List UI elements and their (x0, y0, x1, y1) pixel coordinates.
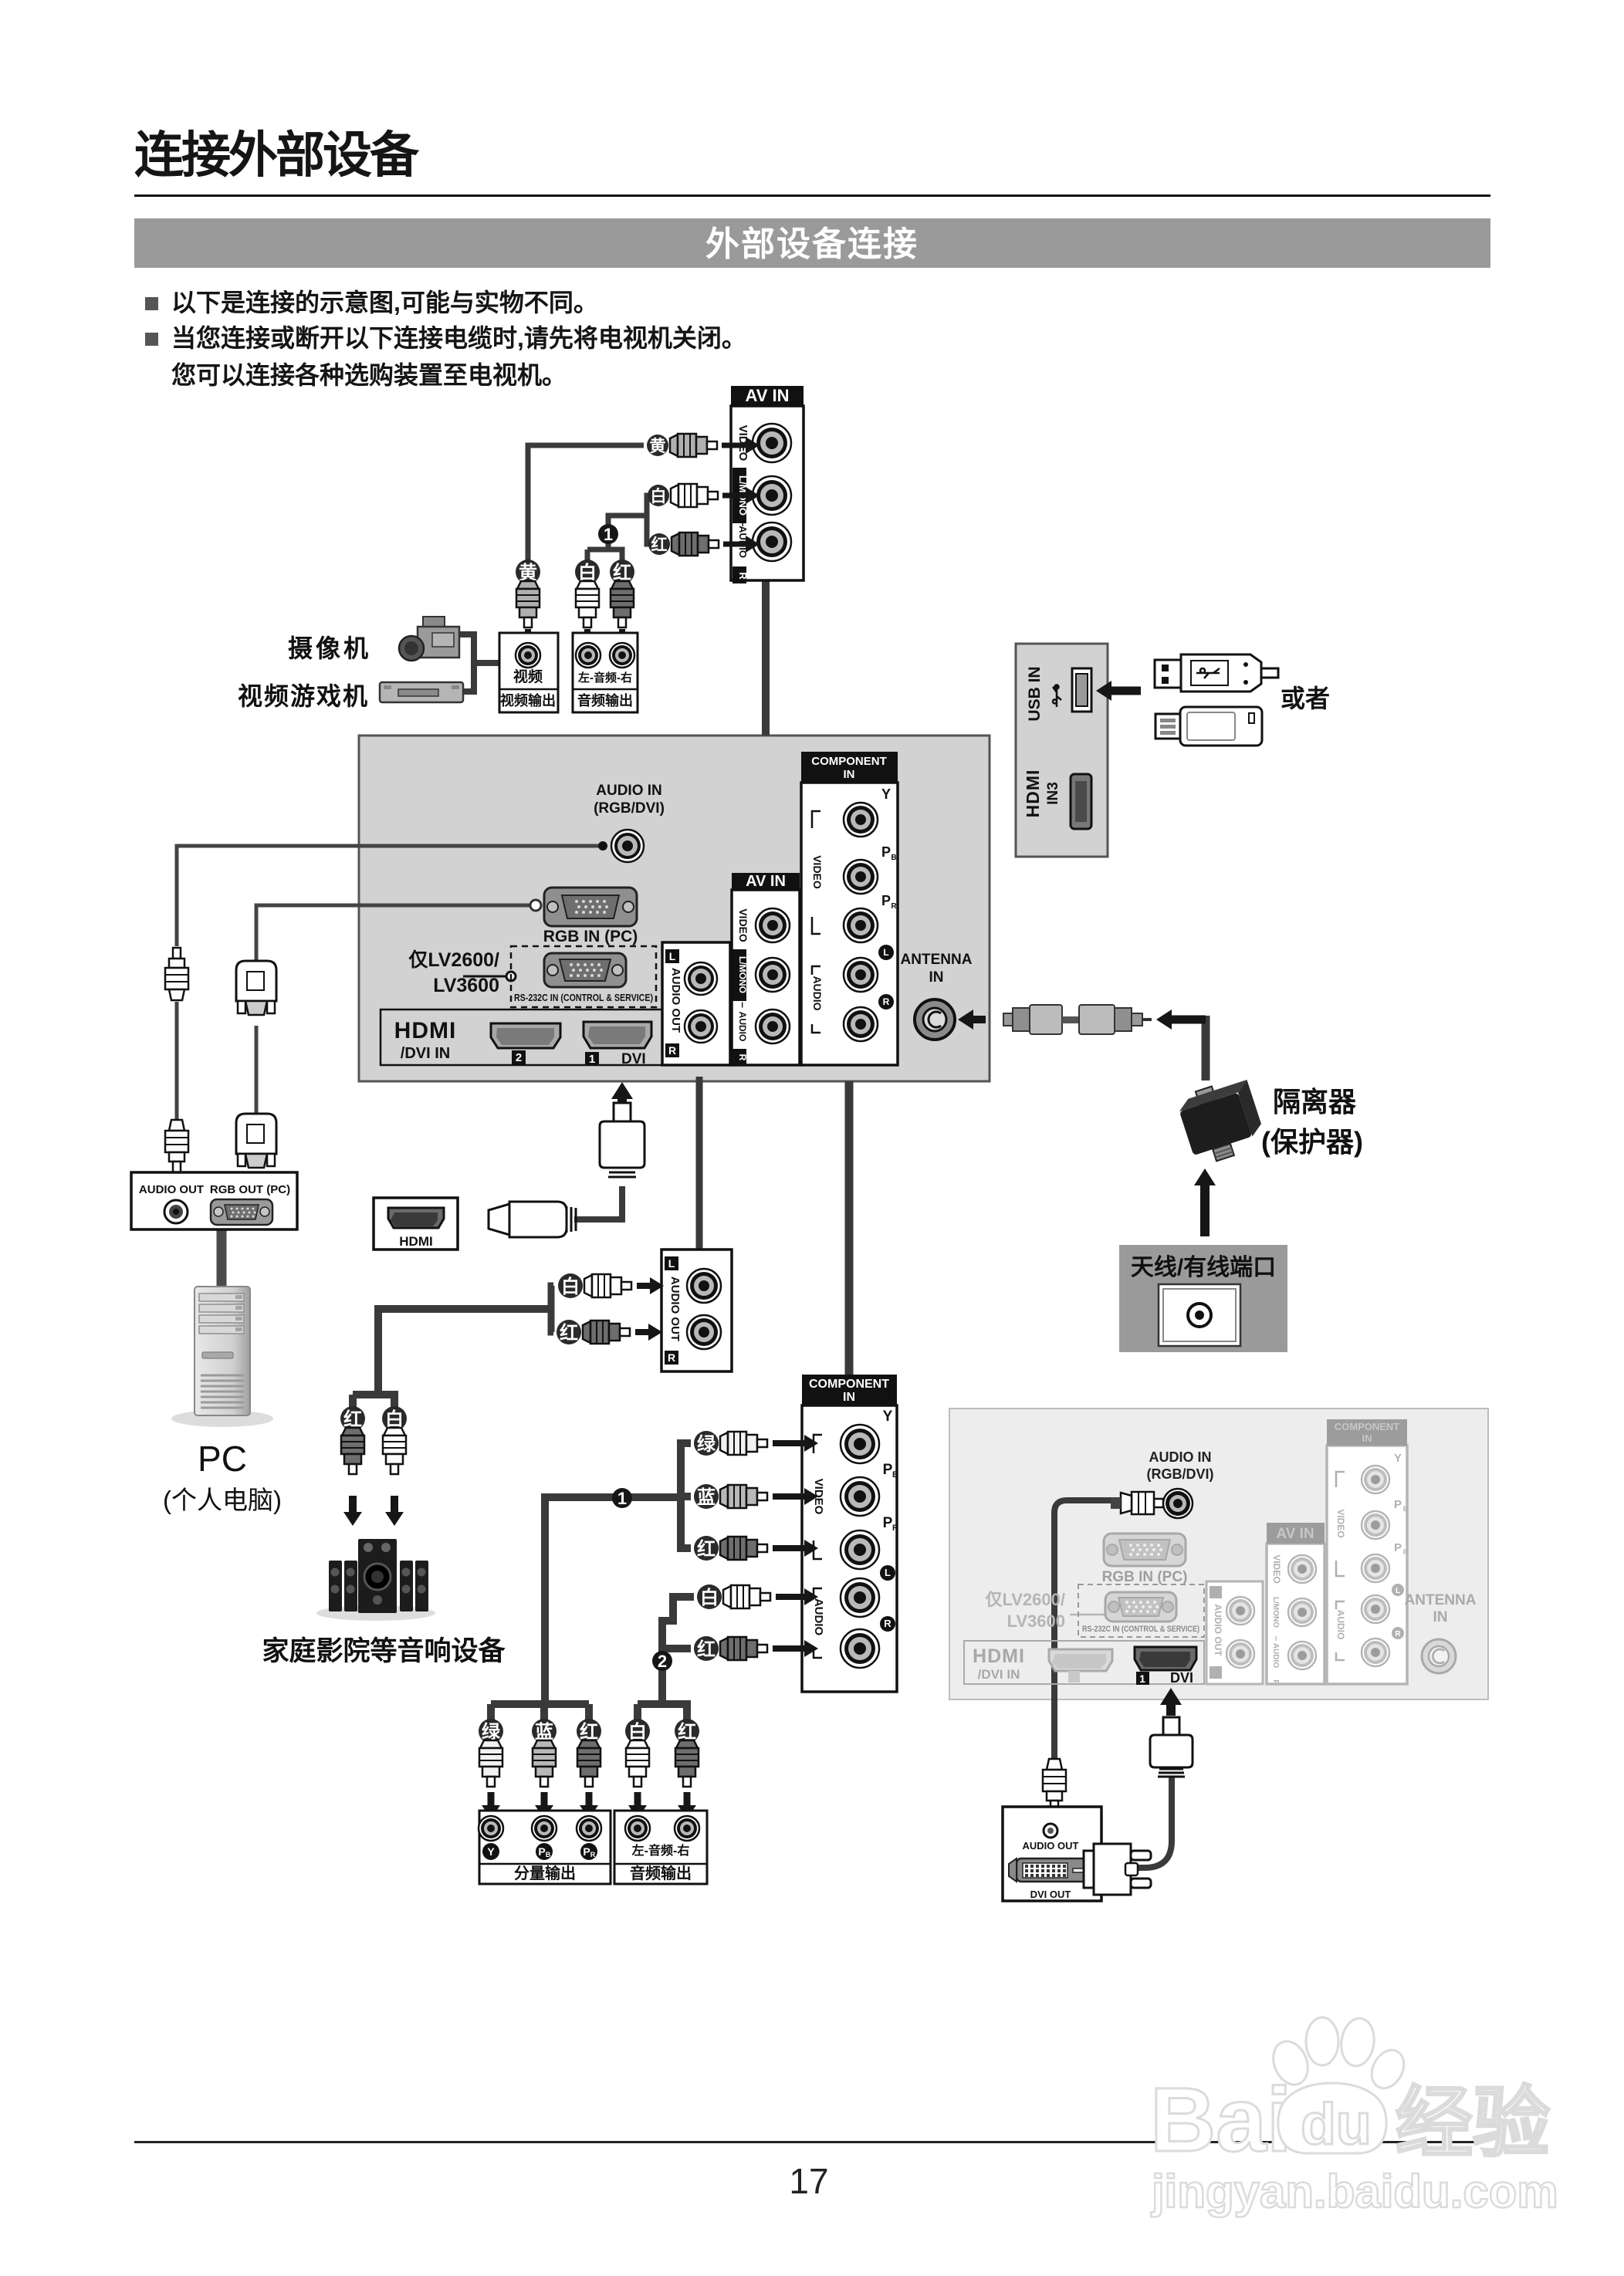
svg-text:以下是连接的示意图,可能与实物不同。: 以下是连接的示意图,可能与实物不同。 (171, 289, 598, 316)
svg-text:AUDIO: AUDIO (1271, 1643, 1280, 1668)
svg-text:AUDIO OUT: AUDIO OUT (668, 1277, 682, 1341)
svg-text:HDMI: HDMI (973, 1645, 1025, 1667)
svg-text:R: R (1271, 1679, 1280, 1686)
svg-text:PC: PC (198, 1439, 247, 1479)
svg-text:L: L (669, 950, 676, 962)
svg-text:1: 1 (589, 1053, 595, 1066)
svg-text:RGB OUT (PC): RGB OUT (PC) (210, 1183, 290, 1196)
svg-text:视频: 视频 (513, 668, 543, 685)
svg-text:分量输出: 分量输出 (514, 1864, 576, 1882)
svg-text:RGB IN (PC): RGB IN (PC) (1102, 1569, 1188, 1585)
svg-text:RS-232C IN (CONTROL & SERVICE): RS-232C IN (CONTROL & SERVICE) (514, 992, 653, 1003)
svg-text:B: B (891, 854, 896, 862)
svg-text:/DVI IN: /DVI IN (978, 1667, 1020, 1682)
svg-text:R: R (737, 572, 749, 580)
svg-text:R: R (668, 1044, 676, 1057)
svg-text:R: R (1403, 1548, 1409, 1556)
svg-text:RS-232C IN (CONTROL & SERVICE): RS-232C IN (CONTROL & SERVICE) (1082, 1625, 1199, 1634)
svg-text:DVI: DVI (621, 1051, 646, 1067)
svg-text:(RGB/DVI): (RGB/DVI) (1147, 1466, 1214, 1482)
svg-text:IN: IN (843, 1391, 855, 1404)
svg-text:当您连接或断开以下连接电缆时,请先将电视机关闭。: 当您连接或断开以下连接电缆时,请先将电视机关闭。 (171, 324, 746, 352)
svg-text:1: 1 (617, 1489, 627, 1508)
svg-text:P: P (883, 1462, 893, 1478)
svg-text:B: B (1403, 1505, 1409, 1513)
svg-text:VIDEO: VIDEO (811, 855, 824, 889)
svg-text:LV3600: LV3600 (1007, 1611, 1065, 1631)
svg-text:P: P (881, 893, 891, 908)
svg-text:音频输出: 音频输出 (577, 692, 633, 709)
svg-text:2: 2 (516, 1051, 522, 1064)
svg-text:L: L (1396, 1587, 1400, 1595)
svg-text:Y: Y (487, 1845, 495, 1858)
svg-text:HDMI: HDMI (394, 1018, 457, 1043)
svg-text:IN: IN (1433, 1609, 1448, 1625)
svg-text:AUDIO: AUDIO (1335, 1610, 1346, 1640)
svg-text:DVI OUT: DVI OUT (1030, 1889, 1071, 1900)
svg-text:COMPONENT: COMPONENT (809, 1378, 889, 1391)
svg-text:HDMI: HDMI (399, 1234, 432, 1249)
svg-text:1: 1 (604, 525, 613, 544)
svg-text:–: – (737, 1002, 749, 1008)
svg-text:–: – (1271, 1636, 1282, 1642)
svg-text:IN: IN (1362, 1432, 1372, 1444)
svg-text:经验: 经验 (1396, 2080, 1550, 2166)
svg-text:您可以连接各种选购装置至电视机。: 您可以连接各种选购装置至电视机。 (171, 361, 567, 389)
svg-text:外部设备连接: 外部设备连接 (705, 225, 919, 263)
svg-text:17: 17 (789, 2161, 828, 2201)
svg-text:Y: Y (1394, 1452, 1402, 1465)
svg-text:1: 1 (1139, 1672, 1145, 1685)
svg-text:Y: Y (881, 786, 891, 802)
svg-text:Y: Y (883, 1409, 893, 1425)
svg-text:IN: IN (844, 768, 855, 781)
svg-text:连接外部设备: 连接外部设备 (134, 127, 420, 183)
svg-text:Bai: Bai (1150, 2069, 1292, 2171)
svg-text:ANTENNA: ANTENNA (1405, 1592, 1477, 1608)
svg-text:AUDIO OUT: AUDIO OUT (1213, 1604, 1223, 1656)
svg-text:R: R (891, 902, 897, 911)
svg-text:左-音频-右: 左-音频-右 (577, 671, 632, 685)
svg-text:P: P (881, 844, 891, 860)
svg-text:COMPONENT: COMPONENT (1335, 1421, 1400, 1432)
svg-text:AV IN: AV IN (1276, 1526, 1314, 1542)
svg-text:白: 白 (651, 487, 667, 506)
svg-text:AUDIO IN: AUDIO IN (596, 783, 662, 799)
svg-text:AUDIO: AUDIO (812, 1598, 825, 1636)
svg-text:蓝: 蓝 (697, 1487, 716, 1508)
svg-text:R: R (737, 1054, 748, 1061)
svg-text:L: L (885, 1567, 891, 1578)
svg-text:LV3600: LV3600 (433, 975, 499, 996)
svg-text:左-音频-右: 左-音频-右 (631, 1843, 690, 1858)
svg-text:黄: 黄 (650, 438, 666, 455)
svg-text:HDMI: HDMI (1023, 769, 1043, 818)
svg-text:AUDIO OUT: AUDIO OUT (139, 1183, 204, 1196)
svg-text:视频游戏机: 视频游戏机 (238, 682, 369, 710)
svg-text:(RGB/DVI): (RGB/DVI) (594, 800, 665, 817)
svg-text:P: P (883, 1515, 893, 1531)
svg-text:2: 2 (658, 1652, 667, 1671)
svg-text:白: 白 (561, 1276, 580, 1297)
svg-text:仅LV2600/: 仅LV2600/ (408, 949, 499, 971)
svg-text:红: 红 (697, 1639, 716, 1660)
svg-text:P: P (1394, 1541, 1402, 1554)
svg-text:AUDIO IN: AUDIO IN (1149, 1449, 1212, 1465)
svg-text:IN3: IN3 (1045, 782, 1061, 805)
svg-text:L/MONO: L/MONO (1271, 1597, 1280, 1628)
svg-text:或者: 或者 (1281, 685, 1330, 712)
svg-text:L: L (668, 1257, 675, 1270)
svg-text:/DVI IN: /DVI IN (401, 1045, 450, 1062)
svg-text:摄像机: 摄像机 (288, 634, 371, 662)
svg-text:jingyan.baidu.com: jingyan.baidu.com (1151, 2166, 1558, 2217)
svg-text:R: R (668, 1351, 675, 1364)
svg-text:R: R (590, 1851, 596, 1858)
svg-text:隔离器: 隔离器 (1273, 1086, 1357, 1118)
svg-text:AV IN: AV IN (746, 873, 786, 890)
svg-text:VIDEO: VIDEO (1335, 1509, 1346, 1537)
svg-text:du: du (1301, 2092, 1372, 2156)
svg-text:(保护器): (保护器) (1261, 1126, 1363, 1158)
svg-text:ANTENNA: ANTENNA (901, 952, 973, 968)
svg-text:AUDIO OUT: AUDIO OUT (669, 968, 682, 1033)
svg-text:音频输出: 音频输出 (630, 1864, 692, 1882)
svg-text:AUDIO: AUDIO (737, 1012, 748, 1042)
svg-text:B: B (892, 1470, 898, 1480)
svg-text:AUDIO: AUDIO (811, 976, 824, 1010)
svg-text:(个人电脑): (个人电脑) (163, 1486, 282, 1514)
svg-text:仅LV2600/: 仅LV2600/ (985, 1590, 1065, 1609)
svg-text:红: 红 (560, 1322, 578, 1344)
svg-text:天线/有线端口: 天线/有线端口 (1131, 1255, 1276, 1280)
svg-text:R: R (1395, 1630, 1401, 1639)
svg-text:白: 白 (700, 1587, 719, 1608)
svg-text:L/MONO: L/MONO (737, 956, 748, 993)
svg-text:红: 红 (697, 1538, 716, 1560)
svg-text:P: P (538, 1845, 545, 1858)
svg-text:P: P (1394, 1498, 1402, 1511)
svg-text:B: B (546, 1851, 551, 1858)
svg-text:AUDIO OUT: AUDIO OUT (1023, 1840, 1079, 1852)
svg-text:IN: IN (929, 969, 944, 986)
svg-text:红: 红 (651, 536, 668, 554)
svg-text:COMPONENT: COMPONENT (811, 755, 887, 768)
svg-text:AV IN: AV IN (745, 386, 789, 405)
svg-text:DVI: DVI (1170, 1670, 1193, 1686)
svg-text:VIDEO: VIDEO (1271, 1554, 1282, 1583)
svg-text:R: R (883, 996, 890, 1007)
svg-text:L: L (883, 947, 888, 958)
svg-text:RGB IN (PC): RGB IN (PC) (543, 928, 638, 945)
svg-text:视频输出: 视频输出 (500, 692, 556, 709)
svg-text:家庭影院等音响设备: 家庭影院等音响设备 (262, 1635, 506, 1666)
svg-text:VIDEO: VIDEO (737, 908, 749, 942)
svg-text:P: P (583, 1845, 590, 1858)
svg-text:R: R (892, 1524, 898, 1533)
svg-text:USB IN: USB IN (1026, 666, 1044, 721)
svg-text:R: R (884, 1618, 892, 1629)
svg-text:绿: 绿 (697, 1433, 716, 1455)
